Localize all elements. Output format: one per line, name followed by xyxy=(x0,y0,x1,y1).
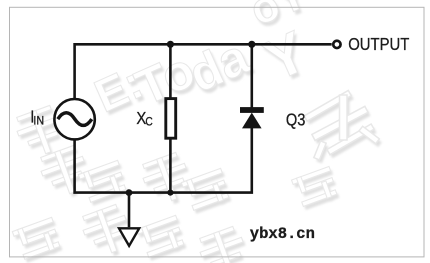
svg-text:OUTPUT: OUTPUT xyxy=(348,35,409,54)
wire top rail xyxy=(75,43,332,46)
svg-text:ybx8.cn: ybx8.cn xyxy=(250,225,315,243)
node bottom Xc junction xyxy=(167,190,173,196)
svg-text:C: C xyxy=(145,116,152,129)
wire Xc branch lower xyxy=(169,138,172,192)
node top Xc junction xyxy=(167,41,174,48)
wire bottom U: source bottom, bottom rail, diode lower lead xyxy=(75,128,252,193)
node top diode junction xyxy=(248,41,255,48)
output terminal xyxy=(333,41,340,48)
wire ground stem xyxy=(128,193,131,228)
ground xyxy=(119,228,139,246)
svg-text:Q3: Q3 xyxy=(286,111,306,129)
svg-text:IN: IN xyxy=(33,115,44,128)
node ground junction xyxy=(126,189,133,196)
reactance X_C (impedance box) xyxy=(166,99,176,139)
wire left branch upper xyxy=(73,43,76,98)
wire Xc branch upper xyxy=(169,43,172,99)
current source I_IN xyxy=(54,99,94,139)
wire diode branch upper xyxy=(251,43,254,108)
diode Q3 xyxy=(240,107,264,128)
